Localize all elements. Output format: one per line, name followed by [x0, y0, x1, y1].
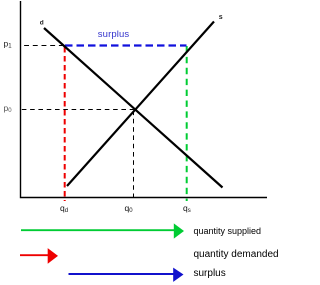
svg-text:surplus: surplus	[194, 268, 226, 279]
svg-text:s: s	[219, 14, 223, 21]
svg-text:quantity supplied: quantity supplied	[194, 226, 262, 236]
svg-text:d: d	[40, 20, 44, 27]
svg-text:quantity demanded: quantity demanded	[194, 249, 279, 260]
svg-text:surplus: surplus	[98, 29, 130, 40]
